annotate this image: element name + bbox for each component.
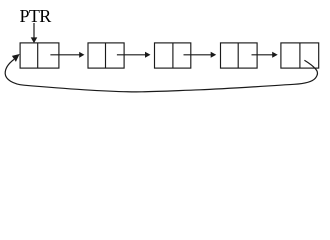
link wire N1 to N2 [50, 52, 84, 58]
link wire N2 to N3 [117, 52, 151, 58]
PTR pointer arrow (down) [31, 23, 38, 43]
label PTR [20, 6, 52, 26]
circular return wire N5 to N1 [5, 59, 317, 91]
link wire N4 to N5 [252, 52, 278, 58]
node N5 box [281, 43, 319, 68]
node N2 box [88, 43, 124, 68]
node N1 box [20, 43, 59, 68]
node N4 box [221, 43, 258, 68]
return wire arrowhead at N1 [12, 54, 20, 62]
node N3 box [155, 43, 191, 68]
svg-text:PTR: PTR [20, 6, 52, 26]
link wire N3 to N4 [184, 52, 217, 58]
